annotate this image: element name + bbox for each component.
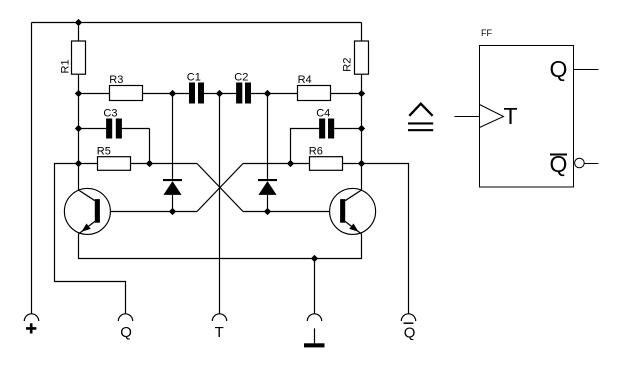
wire FF Qbar output: [584, 163, 598, 165]
svg-text:Q: Q: [120, 324, 132, 341]
capacitor C2: [220, 72, 268, 104]
wire right collector node vertical: [361, 94, 363, 191]
terminal Q: [118, 314, 132, 341]
op-amp U1 flip-flop box FF: [480, 28, 574, 187]
wire Q output: from left node down and across: [55, 164, 126, 314]
svg-text:R5: R5: [97, 146, 111, 158]
capacitor C3: [79, 107, 150, 138]
svg-text:Q: Q: [550, 56, 568, 82]
wire T input vertical: [219, 94, 221, 314]
resistor R1: [59, 23, 85, 94]
resistor R6: [291, 146, 362, 171]
wire left collector node vertical: [78, 94, 80, 191]
equivalence symbol: [408, 104, 433, 132]
svg-text:C2: C2: [234, 72, 248, 84]
capacitor C1: [173, 72, 220, 104]
resistor R3: [79, 74, 173, 101]
svg-text:T: T: [215, 324, 224, 341]
svg-text:R2: R2: [342, 58, 354, 72]
wire C3 right down to R5 right: [149, 129, 151, 164]
resistor R2: [342, 23, 369, 94]
svg-text:FF: FF: [481, 28, 492, 38]
capacitor C4: [291, 107, 362, 163]
svg-text:R3: R3: [109, 74, 123, 86]
svg-text:R6: R6: [309, 146, 323, 158]
svg-text:R4: R4: [298, 74, 312, 86]
wire left supply rail down to + terminal: [31, 23, 33, 314]
resistor R4: [268, 74, 362, 101]
wire FF Q output: [574, 69, 599, 71]
wire cross-couple from R5/C3 node to Q2 base: [150, 163, 198, 165]
wire FF input T: [455, 116, 480, 118]
node T dynamic input triangle: [480, 105, 504, 128]
node Qbar label in FF: [550, 151, 568, 177]
svg-text:T: T: [504, 103, 518, 129]
wire Qbar output: from right node across and down: [362, 164, 409, 314]
node junction dots: [75, 19, 364, 261]
terminal T: [212, 314, 226, 341]
wire ground terminal drop: [314, 259, 316, 314]
transistor Q2 right: [330, 188, 376, 234]
node inversion bubble: [575, 158, 585, 168]
wire cross-couple from Q1 base to C4/R6 node: [100, 211, 197, 213]
terminal +: [24, 314, 38, 334]
svg-text:R1: R1: [59, 59, 71, 73]
svg-text:C1: C1: [187, 72, 201, 84]
diode D2: [258, 94, 277, 212]
wire emitter rail: [79, 234, 362, 259]
terminal Qbar: [401, 314, 415, 342]
svg-text:C4: C4: [316, 107, 330, 119]
diode D1: [163, 94, 182, 212]
ground: [304, 314, 325, 348]
svg-text:Q: Q: [404, 325, 416, 342]
svg-text:C3: C3: [103, 107, 117, 119]
svg-text:Q: Q: [550, 151, 568, 177]
transistor Q1 left: [64, 188, 110, 234]
resistor R5: [79, 146, 150, 171]
wire top supply rail: [32, 22, 362, 24]
